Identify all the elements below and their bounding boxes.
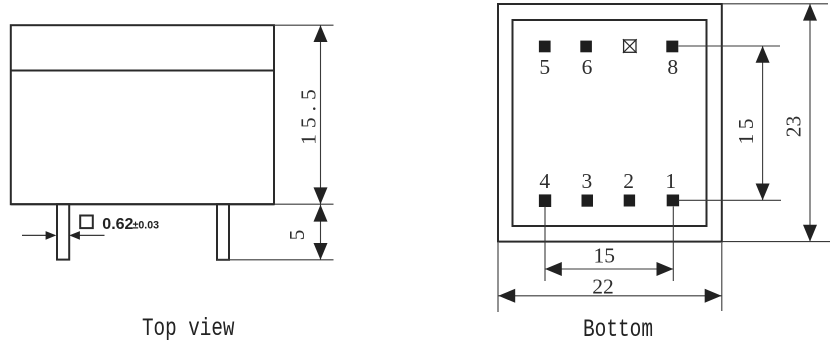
svg-text:±0.03: ±0.03 [133,220,160,232]
extension line from pad 1 [679,199,782,201]
extension line bottom right of outer box [722,241,830,243]
bottom view outer outline [498,4,722,242]
dimension line 15 (right vertical) [762,46,764,200]
top view right pin [217,204,229,260]
svg-text:15.5: 15.5 [297,83,321,145]
dimension line 22 [498,295,722,297]
extension line below outer box right [721,243,723,311]
dimension line 5 [320,204,322,260]
svg-text:Top view: Top view [142,314,235,341]
pad 5 [539,41,551,53]
svg-text:5: 5 [539,55,550,79]
svg-text:Bottom: Bottom [583,315,653,341]
extension line top of body [274,24,334,26]
svg-text:1: 1 [665,169,676,193]
dimension line 15 (bottom horizontal) [545,268,673,270]
pad 4 [539,194,551,207]
pad 3 [582,195,594,207]
svg-text:5: 5 [285,230,309,241]
crossed square index mark [624,40,636,52]
svg-text:15: 15 [594,243,616,267]
dimension line 23 [809,4,811,242]
pin width leader left (arrow pointing right) [22,234,47,236]
bottom view inner outline [513,20,707,226]
extension line below outer box left [497,243,499,312]
top view cover seam line [11,70,274,72]
pad 8 [666,41,678,53]
square section symbol [80,216,93,229]
extension line bottom of body [274,203,334,205]
pad 1 [667,195,679,207]
svg-text:3: 3 [582,169,593,193]
extension line below pad 4 [544,207,546,282]
top view body outline [11,25,274,204]
extension line below pad 1 [672,207,674,282]
svg-text:0.62: 0.62 [102,216,133,233]
extension line top right of outer box [722,3,828,5]
extension line from pad 8 [679,45,781,47]
svg-text:4: 4 [539,169,550,193]
extension line pin tip [217,259,334,261]
svg-text:23: 23 [781,116,805,138]
svg-text:15: 15 [734,114,758,145]
top view left pin [57,204,69,259]
svg-text:22: 22 [592,274,614,298]
body bottom edge over pins [11,203,274,205]
svg-text:2: 2 [623,169,634,193]
dimension line 15.5 [320,25,322,204]
pad 6 [580,41,592,53]
pad 2 [624,195,635,207]
pin width leader right (arrow pointing left) [79,234,105,236]
svg-text:8: 8 [667,55,678,79]
svg-text:6: 6 [582,55,593,79]
